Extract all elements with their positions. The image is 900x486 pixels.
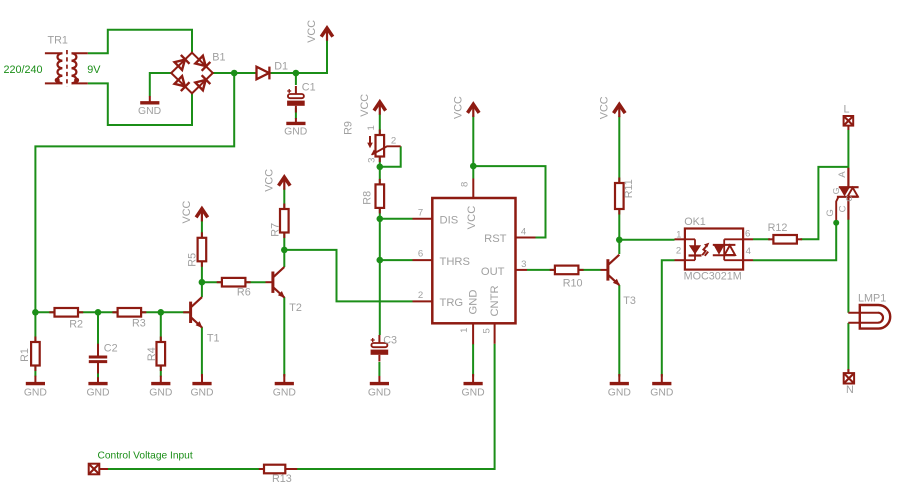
- svg-text:G: G: [831, 188, 841, 195]
- node junction: [377, 216, 384, 223]
- svg-text:GND: GND: [284, 127, 307, 138]
- resistor R3: [112, 308, 146, 330]
- wire: [201, 327, 203, 377]
- node junction: [470, 163, 477, 170]
- wire: [618, 116, 620, 240]
- wire: [201, 221, 203, 282]
- svg-text:D1: D1: [274, 60, 288, 72]
- node junction: [281, 247, 288, 254]
- svg-text:DIS: DIS: [440, 215, 459, 227]
- resistor R12: [768, 222, 803, 244]
- node junction: [158, 309, 165, 316]
- supply VCC: [181, 200, 208, 223]
- wire: [202, 281, 266, 283]
- svg-text:TR1: TR1: [48, 35, 68, 47]
- svg-text:VCC: VCC: [359, 94, 371, 117]
- wire: [283, 297, 285, 377]
- wire: [801, 167, 849, 239]
- svg-text:4: 4: [521, 226, 527, 237]
- svg-text:C3: C3: [383, 334, 397, 346]
- node junction: [199, 279, 206, 286]
- node junction: [293, 70, 300, 77]
- svg-text:2: 2: [391, 135, 396, 146]
- wire: [88, 83, 192, 125]
- terminal Control Voltage Input: [89, 451, 193, 475]
- supply VCC: [359, 94, 386, 117]
- resistor R2: [49, 308, 83, 331]
- svg-text:B1: B1: [212, 51, 225, 63]
- capacitor C2: [89, 343, 118, 374]
- svg-text:R3: R3: [132, 318, 146, 330]
- ground: [86, 377, 109, 398]
- triac: [825, 168, 859, 223]
- svg-text:TRG: TRG: [440, 297, 464, 309]
- supply VCC: [306, 20, 333, 43]
- terminal L: [844, 104, 854, 130]
- wire: [97, 372, 99, 378]
- svg-text:C: C: [844, 195, 854, 201]
- wire: [618, 285, 620, 377]
- svg-text:T1: T1: [207, 332, 220, 344]
- wire: [35, 73, 234, 312]
- diode D1: [257, 60, 289, 79]
- bridge rectifier B1: [171, 51, 225, 93]
- wire: [380, 146, 401, 167]
- node junction: [32, 309, 39, 316]
- ground: [608, 374, 631, 398]
- capacitor C3: [371, 334, 397, 361]
- ground: [462, 374, 485, 398]
- svg-text:N: N: [846, 384, 854, 396]
- node junction: [833, 220, 839, 226]
- wire: [99, 468, 265, 470]
- terminal N: [844, 369, 854, 396]
- node junction: [95, 309, 102, 316]
- svg-text:THRS: THRS: [440, 256, 470, 268]
- resistor R11: [615, 178, 635, 215]
- supply VCC: [263, 169, 290, 192]
- svg-text:Control Voltage Input: Control Voltage Input: [98, 451, 193, 462]
- wire: [294, 344, 495, 469]
- svg-text:GND: GND: [368, 387, 391, 398]
- wire: [619, 239, 674, 241]
- wire: [295, 73, 297, 85]
- supply VCC: [452, 96, 479, 119]
- wire: [379, 114, 381, 219]
- wire: [847, 323, 849, 372]
- svg-text:R4: R4: [146, 347, 158, 361]
- svg-text:R5: R5: [186, 253, 198, 267]
- wire: [150, 73, 172, 96]
- wire: [283, 250, 285, 267]
- svg-text:R12: R12: [768, 222, 788, 234]
- svg-text:R1: R1: [19, 348, 31, 362]
- wire: [473, 166, 545, 237]
- svg-text:C2: C2: [104, 343, 118, 355]
- svg-text:7: 7: [418, 208, 423, 219]
- ground: [650, 374, 673, 398]
- wire: [88, 30, 192, 53]
- wire: [380, 259, 413, 261]
- wire: [380, 218, 413, 220]
- svg-text:R2: R2: [69, 319, 83, 331]
- svg-text:R7: R7: [270, 223, 282, 237]
- svg-text:GND: GND: [462, 387, 485, 398]
- supply VCC: [598, 96, 625, 119]
- svg-text:GND: GND: [190, 387, 213, 398]
- wire: [379, 219, 381, 260]
- resistor R10: [550, 266, 584, 290]
- wire: [295, 108, 297, 119]
- resistor R4: [146, 337, 165, 372]
- svg-text:GND: GND: [24, 387, 47, 398]
- svg-text:GND: GND: [467, 290, 479, 315]
- wire: [97, 312, 99, 345]
- wire: [283, 189, 285, 250]
- wire: [284, 250, 412, 302]
- svg-text:GND: GND: [608, 387, 631, 398]
- svg-text:2: 2: [676, 245, 681, 256]
- resistor R6: [217, 278, 251, 298]
- svg-text:6: 6: [418, 249, 423, 260]
- trimmer R9: [343, 121, 401, 163]
- svg-text:OUT: OUT: [481, 266, 505, 278]
- svg-text:220/240: 220/240: [4, 64, 43, 76]
- wire: [160, 312, 162, 376]
- wire: [35, 311, 190, 313]
- svg-text:5: 5: [481, 328, 492, 333]
- resistor R7: [270, 204, 289, 239]
- transistor T2: [266, 267, 302, 314]
- transformer TR1: [45, 35, 88, 87]
- op-amp U1 555 timer: [413, 179, 536, 345]
- svg-text:GND: GND: [138, 106, 161, 117]
- wire: [753, 238, 770, 240]
- wire: [472, 116, 474, 179]
- resistor R5: [186, 232, 206, 266]
- svg-text:L: L: [844, 104, 850, 116]
- svg-text:4: 4: [746, 246, 752, 257]
- lamp LMP1: [848, 293, 890, 329]
- svg-text:6: 6: [745, 229, 750, 240]
- svg-text:2: 2: [418, 290, 423, 301]
- node junction: [231, 70, 238, 77]
- wire: [753, 224, 836, 261]
- wire: [472, 344, 474, 377]
- node junction: [377, 164, 384, 171]
- svg-text:1: 1: [366, 125, 377, 130]
- svg-text:3: 3: [521, 259, 526, 270]
- svg-text:R10: R10: [563, 278, 583, 290]
- wire: [847, 220, 849, 313]
- svg-text:LMP1: LMP1: [858, 293, 886, 305]
- svg-text:VCC: VCC: [598, 96, 610, 119]
- svg-text:R6: R6: [237, 286, 251, 298]
- svg-text:T3: T3: [623, 295, 636, 307]
- svg-text:GND: GND: [650, 387, 673, 398]
- svg-text:RST: RST: [484, 233, 507, 245]
- wire: [271, 40, 327, 73]
- svg-text:GND: GND: [273, 387, 296, 398]
- wire: [201, 282, 203, 297]
- svg-text:C: C: [838, 205, 849, 212]
- svg-text:3: 3: [366, 158, 377, 163]
- svg-text:1: 1: [676, 229, 681, 240]
- wire: [662, 260, 675, 376]
- svg-text:GND: GND: [86, 387, 109, 398]
- svg-text:8: 8: [459, 182, 470, 187]
- wire: [527, 269, 601, 271]
- svg-text:VCC: VCC: [452, 96, 464, 119]
- node junction: [377, 257, 384, 264]
- ground: [368, 376, 391, 398]
- svg-text:VCC: VCC: [181, 200, 193, 223]
- wire: [379, 260, 381, 335]
- value 9V: [87, 64, 101, 76]
- svg-text:GND: GND: [149, 387, 172, 398]
- capacitor C1: [287, 81, 316, 112]
- wire: [212, 72, 257, 74]
- optocoupler OK1: [675, 216, 754, 283]
- svg-text:9V: 9V: [87, 64, 101, 76]
- svg-text:CNTR: CNTR: [489, 285, 501, 316]
- transistor T1: [183, 297, 219, 344]
- node junction: [616, 237, 623, 244]
- ground: [284, 118, 307, 138]
- wire: [34, 312, 36, 376]
- svg-text:OK1: OK1: [684, 216, 706, 228]
- svg-text:A: A: [837, 171, 848, 178]
- svg-text:MOC3021M: MOC3021M: [684, 271, 742, 283]
- svg-text:C1: C1: [302, 81, 316, 93]
- svg-text:VCC: VCC: [466, 206, 478, 230]
- svg-text:R11: R11: [623, 179, 635, 198]
- ground: [24, 376, 47, 399]
- svg-text:R13: R13: [272, 473, 292, 485]
- svg-text:T2: T2: [289, 302, 302, 314]
- ground: [149, 376, 172, 399]
- svg-text:G: G: [825, 209, 836, 216]
- transistor T3: [601, 255, 636, 307]
- svg-text:R9: R9: [343, 121, 355, 135]
- svg-text:R8: R8: [361, 191, 373, 205]
- ground: [273, 374, 296, 398]
- resistor R1: [19, 337, 40, 372]
- resistor R8: [361, 179, 384, 214]
- wire: [847, 130, 849, 168]
- resistor R13: [259, 465, 297, 485]
- value 220/240: [4, 64, 43, 76]
- svg-text:1: 1: [459, 328, 470, 333]
- svg-text:VCC: VCC: [263, 169, 275, 192]
- ground: [190, 374, 213, 398]
- wire: [378, 362, 380, 376]
- ground: [138, 96, 161, 117]
- wire: [618, 240, 620, 254]
- svg-text:VCC: VCC: [306, 20, 318, 43]
